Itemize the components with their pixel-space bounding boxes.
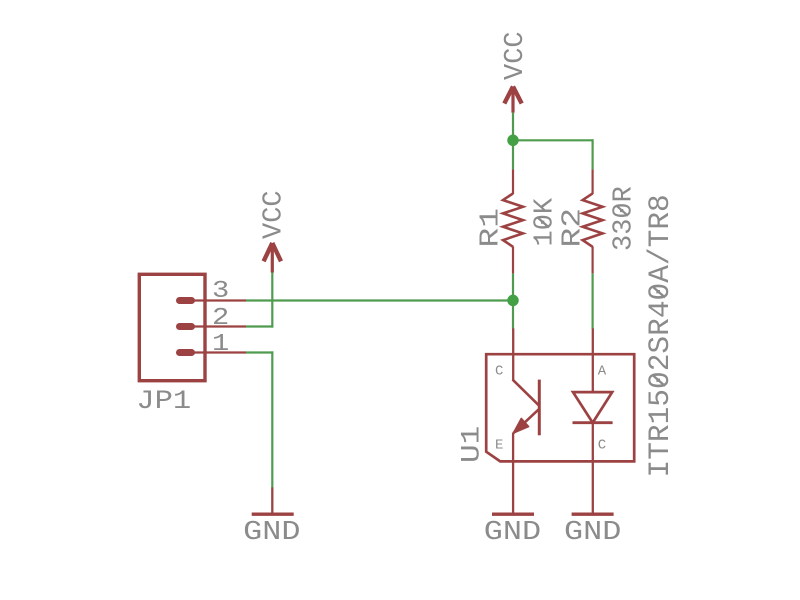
wire VCC horizontal to R2 [512,139,593,141]
JP1 pin 3 lead [194,299,246,301]
supply VCC top arrow [504,87,521,113]
wire GND pin1 vertical down [271,351,273,487]
U1 pin C lead (phototransistor collector) [512,328,514,380]
resistor R2 bottom lead [591,246,593,273]
svg-text:3: 3 [212,277,229,304]
label U1 [456,426,487,463]
value ITR1502SR40A/TR8 [643,194,677,477]
phototransistor base bar [538,380,541,436]
LED triangle [573,392,612,423]
JP1 pin 2 lead [194,325,246,327]
wire R2 top vertical [591,139,593,169]
resistor R2 top lead [591,169,593,194]
resistor R1 top lead [512,169,514,194]
wire R2 bottom to U1 A [591,273,593,329]
resistor R2 zigzag [583,193,603,246]
svg-text:GND: GND [564,516,621,547]
label GND middle [484,516,541,547]
svg-text:ITR1502SR40A/TR8: ITR1502SR40A/TR8 [643,194,677,477]
ground GND (left, JP1 pin1) stub [271,487,273,514]
label R2 [558,208,588,248]
svg-text:1: 1 [212,330,229,357]
phototransistor collector diagonal [513,380,540,406]
svg-text:GND: GND [484,516,541,547]
wire VCC vertical to arrow [271,272,273,327]
value 330R [610,186,640,251]
svg-text:VCC: VCC [260,190,290,239]
JP1 pin 1 lead [194,351,246,353]
supply VCC arrow near JP1 [264,243,281,273]
label GND right [564,516,621,547]
wire VCC pin2 horizontal [246,325,273,327]
svg-text:GND: GND [243,516,300,547]
svg-text:330R: 330R [610,186,640,251]
connector JP1 box [139,274,205,380]
label JP1 [136,386,191,417]
label VCC top [501,31,531,80]
label R1 [476,208,506,248]
junction dot VCC/R1/R2 [507,135,519,147]
wire net N$1 pin3 horizontal [246,299,513,301]
JP1 pin 3 bar [180,297,192,304]
resistor R1 bottom lead [512,246,514,273]
ground GND right bar (U1 C) [572,513,614,516]
optocoupler U1 box [486,354,634,461]
wire GND pin1 horizontal [246,351,273,353]
label VCC near JP1 [260,190,290,239]
svg-text:VCC: VCC [501,31,531,80]
phototransistor emitter arrowhead [513,418,529,433]
svg-text:E: E [495,437,503,453]
pin number 3 [212,277,229,304]
JP1 pin 1 bar [180,349,192,356]
label GND left [243,516,300,547]
svg-text:R1: R1 [476,208,506,248]
LED cathode bar [573,421,613,424]
value 10K [531,197,561,246]
U1 pin E lead + wire to GND [512,433,514,514]
svg-text:C: C [598,437,606,453]
svg-text:JP1: JP1 [136,386,191,417]
wire R1 bottom to U1 C [512,273,514,329]
wire VCC top column [512,113,514,170]
svg-text:A: A [598,364,607,380]
ground GND left bar [252,513,294,516]
svg-text:2: 2 [212,304,229,331]
pin number 2 [212,304,229,331]
U1 pin C2 lead + wire to GND [592,423,594,515]
junction dot N$1 R1/U1/JP1 [507,295,519,307]
U1 pin A lead (LED anode) [592,328,594,392]
JP1 pin 2 bar [180,323,192,330]
svg-text:R2: R2 [558,208,588,248]
ground GND middle bar (U1 E) [492,513,534,516]
svg-text:10K: 10K [531,197,561,246]
phototransistor emitter diagonal [513,409,539,434]
svg-text:C: C [495,364,503,380]
svg-text:U1: U1 [456,426,487,463]
pin number 1 [212,330,229,357]
resistor R1 zigzag [503,193,523,246]
